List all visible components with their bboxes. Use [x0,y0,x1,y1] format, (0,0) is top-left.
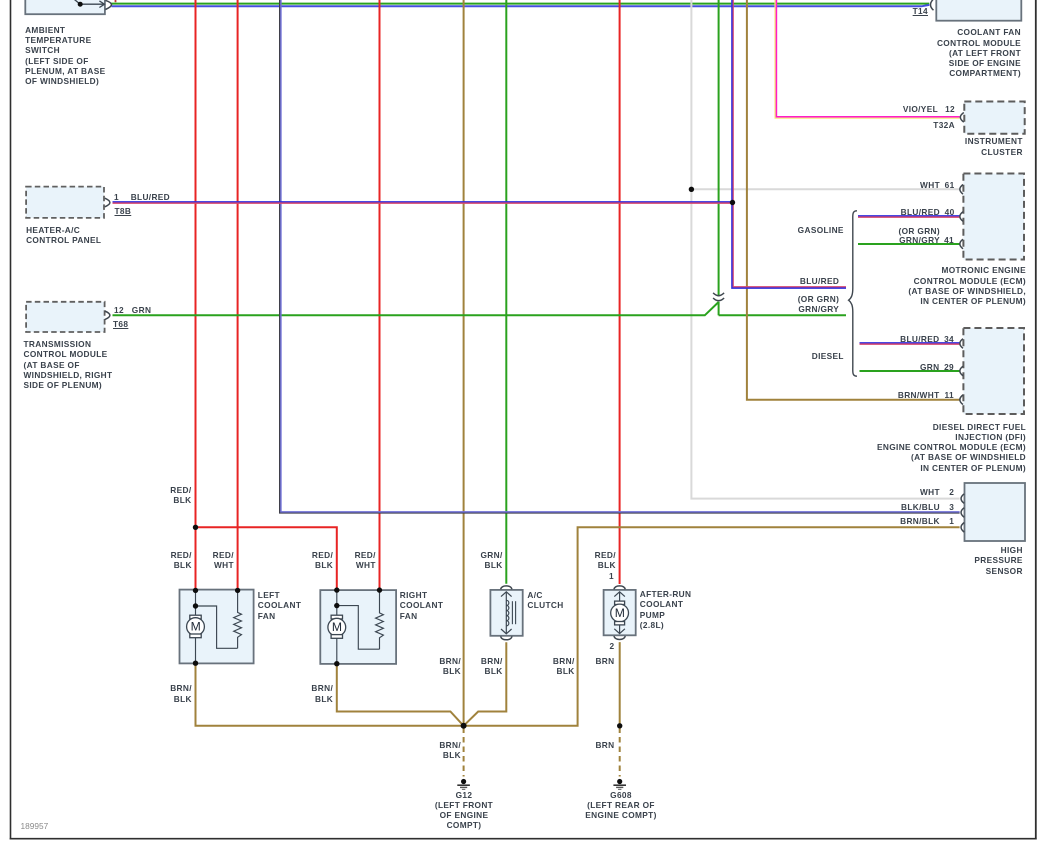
svg-text:M: M [191,620,201,634]
svg-text:M: M [332,620,342,634]
svg-text:M: M [615,606,625,620]
